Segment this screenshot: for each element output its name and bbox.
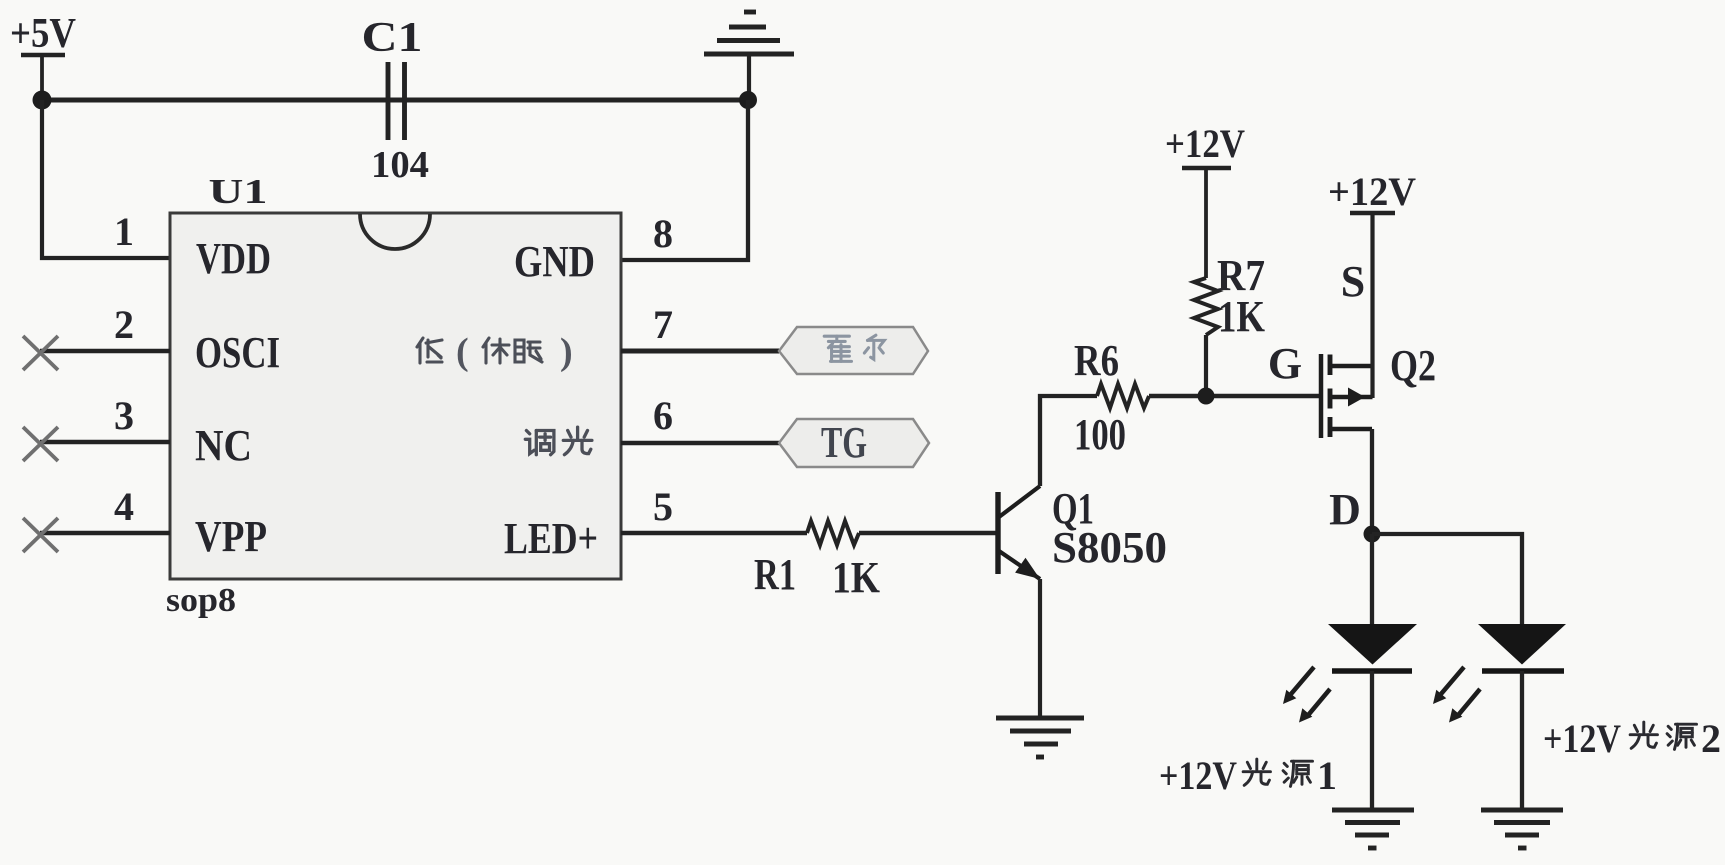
wire LED2 to ground xyxy=(1520,671,1524,810)
svg-text:104: 104 xyxy=(371,144,429,186)
svg-text:8: 8 xyxy=(653,211,673,256)
svg-text:+12V: +12V xyxy=(1165,121,1245,166)
wire R1 to Q1 base xyxy=(859,531,998,536)
svg-text:U1: U1 xyxy=(209,172,268,211)
svg-text:C1: C1 xyxy=(362,15,423,61)
power +12V (Q2 source) xyxy=(1350,213,1395,398)
wire R7 to node xyxy=(1204,335,1208,396)
wire pin2 xyxy=(40,349,170,354)
svg-text:1: 1 xyxy=(1317,753,1337,798)
svg-text:S8050: S8050 xyxy=(1052,523,1167,572)
capacitor C1 xyxy=(388,62,405,140)
wire gnd to pin8 xyxy=(621,100,748,260)
svg-text:G: G xyxy=(1268,339,1302,388)
transistor Q2 (PMOS) xyxy=(1321,354,1373,438)
ground (top right) xyxy=(704,12,794,100)
LED D2 xyxy=(1478,624,1566,671)
svg-text:1: 1 xyxy=(114,209,134,254)
Q2 body arrow xyxy=(1348,388,1365,407)
node A (junction +5V rail) xyxy=(33,91,52,110)
svg-text:R6: R6 xyxy=(1074,336,1119,385)
no-connect X pin3 xyxy=(23,427,58,461)
wire Q2 drain down xyxy=(1370,429,1374,534)
svg-text:VDD: VDD xyxy=(196,234,271,283)
svg-text:NC: NC xyxy=(195,421,252,470)
node B (junction gnd rail) xyxy=(739,91,757,109)
node G junction xyxy=(1198,388,1215,405)
svg-text:1K: 1K xyxy=(832,553,880,602)
no-connect X pin2 xyxy=(23,336,58,370)
LED D2 light arrows xyxy=(1433,667,1480,723)
net label hexagon 霍尔 xyxy=(779,327,928,374)
wire top rail xyxy=(42,98,748,103)
svg-text:Q2: Q2 xyxy=(1390,341,1436,390)
power +12V (R7) xyxy=(1182,168,1231,278)
wire pin3 xyxy=(40,440,170,445)
svg-text:3: 3 xyxy=(114,393,134,438)
wire LED1 to ground xyxy=(1370,671,1374,810)
svg-text:2: 2 xyxy=(1701,716,1721,761)
svg-text:sop8: sop8 xyxy=(166,582,236,619)
svg-text:+5V: +5V xyxy=(10,11,76,57)
svg-text:4: 4 xyxy=(114,484,134,529)
wire pin6 xyxy=(621,441,779,446)
resistor R6 xyxy=(1097,384,1149,408)
pin label 调光 (drawn CJK) xyxy=(525,427,592,455)
wire Q1 emitter down xyxy=(1038,579,1042,718)
svg-text:1K: 1K xyxy=(1218,292,1265,341)
wire pin4 xyxy=(40,531,170,536)
resistor R1 xyxy=(807,521,859,545)
LED D1 xyxy=(1328,624,1417,671)
wire Q1 collector up xyxy=(1040,396,1097,486)
svg-text:OSCI: OSCI xyxy=(195,328,280,377)
svg-text:100: 100 xyxy=(1074,410,1126,459)
ground (LED1) xyxy=(1332,810,1414,848)
LED D1 light arrows xyxy=(1283,667,1330,723)
svg-text:VPP: VPP xyxy=(195,512,267,561)
U1 notch xyxy=(360,214,430,249)
ground (LED2) xyxy=(1481,810,1563,848)
net label hexagon TG xyxy=(779,418,929,467)
wire pin5 left segment xyxy=(621,531,807,536)
op-amp U1 body xyxy=(170,213,621,579)
svg-text:+12V: +12V xyxy=(1328,169,1416,214)
svg-text:): ) xyxy=(560,331,573,373)
net label +12V光源1 xyxy=(1159,753,1337,798)
svg-text:TG: TG xyxy=(821,418,867,467)
resistor R7 xyxy=(1194,278,1218,335)
svg-text:5: 5 xyxy=(653,484,673,529)
svg-text:+12V: +12V xyxy=(1159,753,1237,798)
wire D to LED2 xyxy=(1372,534,1522,624)
svg-text:GND: GND xyxy=(514,237,595,286)
pin label 低（休眠） (drawn CJK) xyxy=(417,338,542,363)
svg-text:D: D xyxy=(1329,485,1361,534)
svg-text:(: ( xyxy=(456,331,469,373)
svg-text:LED+: LED+ xyxy=(504,514,598,563)
ground (Q1 emitter) xyxy=(996,718,1084,757)
node D junction xyxy=(1364,526,1381,543)
transistor Q1 xyxy=(998,486,1040,579)
wire R6 to gate xyxy=(1149,394,1321,399)
svg-text:6: 6 xyxy=(653,393,673,438)
wire +5V to pin1 xyxy=(42,100,170,258)
no-connect X pin4 xyxy=(23,518,58,552)
svg-text:R1: R1 xyxy=(754,550,796,599)
svg-text:+12V: +12V xyxy=(1543,716,1621,761)
svg-text:S: S xyxy=(1341,257,1365,306)
wire D to LED1 xyxy=(1370,534,1374,624)
svg-text:7: 7 xyxy=(653,302,673,347)
power +5V xyxy=(21,55,65,100)
net label +12V光源2 xyxy=(1543,716,1721,761)
wire pin7 xyxy=(621,349,779,354)
svg-text:2: 2 xyxy=(114,302,134,347)
